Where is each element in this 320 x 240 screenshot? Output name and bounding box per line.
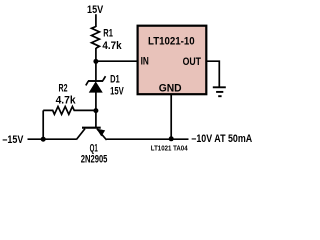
- svg-text:4.7k: 4.7k: [56, 94, 77, 106]
- resistor R1: [92, 27, 100, 49]
- node junction D1/R2/base: [93, 108, 98, 113]
- wire -15V rail: [28, 138, 77, 140]
- svg-text:R2: R2: [59, 82, 68, 94]
- svg-text:OUT: OUT: [183, 56, 202, 68]
- wire D1 to base junction: [95, 92, 97, 127]
- wire 15V to R1: [95, 14, 97, 27]
- svg-text:D1: D1: [110, 73, 120, 85]
- wire R1 to D1: [95, 48, 97, 80]
- node junction R1/D1/IN: [93, 59, 98, 64]
- svg-text:GND: GND: [159, 83, 182, 95]
- svg-text:–15V: –15V: [2, 134, 23, 146]
- wire to IN pin: [96, 60, 138, 62]
- svg-text:4.7k: 4.7k: [102, 40, 122, 52]
- svg-text:LT1021-10: LT1021-10: [148, 36, 195, 48]
- svg-text:IN: IN: [141, 55, 149, 67]
- node junction R2/-15V rail: [41, 137, 46, 142]
- svg-text:R1: R1: [103, 28, 113, 40]
- svg-text:2N2905: 2N2905: [81, 154, 108, 166]
- node junction GND/output rail: [169, 136, 174, 141]
- zener diode D1: [86, 76, 106, 92]
- svg-text:15V: 15V: [110, 86, 124, 98]
- wire R2 down to -15V rail: [42, 110, 44, 139]
- ground symbol: [213, 87, 226, 96]
- wire GND pin to output rail: [170, 95, 172, 139]
- wire OUT pin to ground: [206, 61, 219, 86]
- wire output rail: [107, 138, 189, 140]
- resistor R2: [43, 107, 96, 115]
- svg-text:LT1021 TA04: LT1021 TA04: [151, 145, 188, 152]
- svg-text:–10V AT 50mA: –10V AT 50mA: [191, 133, 252, 145]
- IC U1 LT1021-10: [138, 26, 207, 95]
- transistor Q1: [76, 128, 106, 140]
